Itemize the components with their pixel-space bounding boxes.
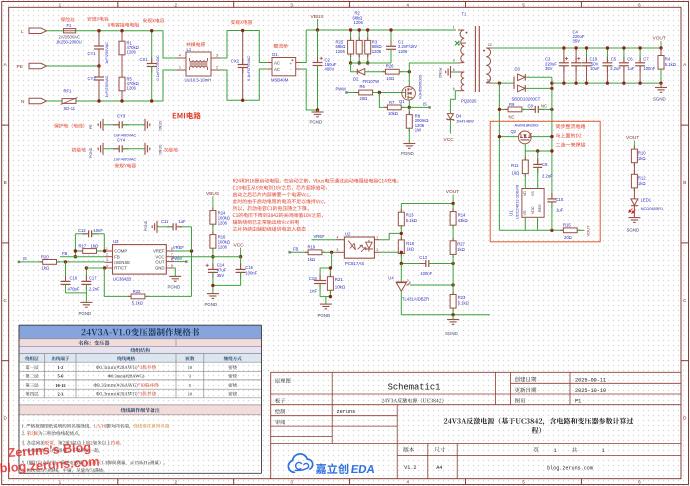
title block 版本 尺寸 页 <box>403 447 414 452</box>
svg-text:CY3: CY3 <box>117 113 126 118</box>
svg-text:PGND: PGND <box>310 120 323 125</box>
svg-text:D: D <box>683 416 687 421</box>
svg-text:R23: R23 <box>458 295 466 300</box>
svg-text:0.1uF/275VAC: 0.1uF/275VAC <box>246 56 251 81</box>
svg-text:2: 2 <box>376 248 378 252</box>
capacitor C9 <box>537 151 539 164</box>
title block row1 原理图 Schematic1 <box>275 378 290 383</box>
svg-text:1nF/250VAC: 1nF/250VAC <box>104 42 109 64</box>
svg-text:C: C <box>4 298 8 303</box>
wire R22 to VREF column <box>191 251 193 296</box>
svg-text:3: 3 <box>189 374 192 379</box>
svg-text:10uF: 10uF <box>590 66 600 71</box>
svg-text:C7: C7 <box>643 57 649 62</box>
wire L to F1 <box>47 30 64 32</box>
svg-text:1206: 1206 <box>372 49 382 54</box>
svg-text:VCC: VCC <box>444 137 455 143</box>
svg-text:5.1kΩ: 5.1kΩ <box>132 300 143 305</box>
svg-text:1: 1 <box>554 448 557 454</box>
svg-text:VREF: VREF <box>153 249 165 254</box>
svg-text:CY4: CY4 <box>117 137 126 142</box>
wire rail to L1 pin4 <box>163 31 177 58</box>
svg-text:PGND: PGND <box>168 285 181 290</box>
ground PGND (C2) <box>317 110 319 112</box>
net label VREF (U2) <box>312 239 336 241</box>
wire to CY4 <box>103 148 119 150</box>
resistor R24 <box>212 207 214 211</box>
svg-text:3: 3 <box>216 54 218 58</box>
resistor R17 <box>75 250 83 252</box>
svg-text:CY2: CY2 <box>88 76 97 81</box>
svg-text:VOUT: VOUT <box>586 225 591 237</box>
resistor R22 <box>104 268 131 296</box>
capacitor C7 <box>639 48 641 63</box>
svg-text:AC: AC <box>274 60 280 65</box>
ground PGND (C18 R21) <box>320 303 332 305</box>
svg-text:10kΩ: 10kΩ <box>335 284 346 289</box>
svg-text:4: 4 <box>179 54 181 58</box>
shunt regulator U4 TL431 <box>400 264 402 283</box>
svg-text:ISENSE: ISENSE <box>114 260 130 265</box>
wire U2 pin1 to divider <box>380 233 402 239</box>
svg-text:LED1: LED1 <box>641 198 652 203</box>
wire L1 pin3 to top rail <box>221 31 268 63</box>
capacitor C1 <box>390 30 392 46</box>
title block main title <box>444 418 633 426</box>
net label FB (U2) <box>288 251 290 253</box>
svg-text:PGND: PGND <box>318 313 331 318</box>
svg-text:1kΩ: 1kΩ <box>638 181 646 186</box>
wires U1 bottom pins to rail <box>524 217 526 230</box>
svg-text:10Ω: 10Ω <box>386 76 394 81</box>
svg-text:4: 4 <box>337 235 339 239</box>
svg-text:C5: C5 <box>611 57 617 62</box>
svg-text:2A/250VAC: 2A/250VAC <box>59 34 81 39</box>
varistor RF1 <box>62 99 76 104</box>
ground SGND (LED1) <box>628 217 640 219</box>
svg-text:RF1: RF1 <box>64 89 73 94</box>
spec table notes text <box>22 424 169 429</box>
svg-text:10-12: 10-12 <box>55 383 65 388</box>
spec table row 名称 变压器 <box>79 340 110 345</box>
svg-text:C17: C17 <box>89 276 97 281</box>
svg-text:6: 6 <box>638 2 641 7</box>
svg-text:D2: D2 <box>353 76 359 81</box>
svg-text:NJH65R600S: NJH65R600S <box>418 74 423 99</box>
svg-text:4: 4 <box>106 264 108 268</box>
svg-text:CX1: CX1 <box>140 57 149 62</box>
svg-text:U3: U3 <box>113 239 119 244</box>
svg-text:SBDD10200CT: SBDD10200CT <box>512 96 541 101</box>
wire RT/CT row <box>86 267 104 269</box>
wire L1 pin2 to bottom rail <box>221 69 268 100</box>
dual schottky D3 <box>513 77 515 90</box>
svg-text:CX2: CX2 <box>231 59 240 64</box>
net label IS (Q1 source) <box>409 106 429 108</box>
wire pin10 node down <box>498 83 500 230</box>
red note 次级地 <box>164 148 178 152</box>
spec table background rows <box>19 325 262 339</box>
svg-text:PE: PE <box>89 124 93 129</box>
svg-text:R18: R18 <box>406 241 414 246</box>
watermark Zeruns Blog <box>0 440 100 475</box>
svg-text:C6: C6 <box>627 57 633 62</box>
svg-text:10: 10 <box>188 365 193 370</box>
svg-text:FB: FB <box>62 251 68 256</box>
svg-text:5: 5 <box>171 264 173 268</box>
svg-text:C10: C10 <box>556 197 564 202</box>
svg-text:PGND: PGND <box>205 302 218 307</box>
title block grid <box>271 371 681 373</box>
svg-text:VOUT: VOUT <box>446 189 459 195</box>
spec table data row 3 <box>25 383 38 387</box>
svg-text:5.1kΩ: 5.1kΩ <box>665 62 676 67</box>
svg-text:AGM18N20D: AGM18N20D <box>515 122 539 127</box>
ground PGND (C16 C17) <box>80 301 92 303</box>
resistor R13 <box>400 204 402 213</box>
ground PGND (C14) <box>207 293 219 295</box>
wire C18 R21 join <box>320 296 330 298</box>
net label VCC (D4) <box>449 120 451 134</box>
svg-text:2.2uF: 2.2uF <box>542 173 553 178</box>
svg-text:NCD0805R1: NCD0805R1 <box>641 206 664 211</box>
svg-text:D3: D3 <box>515 67 521 72</box>
wire U2 pin2 to R18 bottom <box>380 251 402 253</box>
svg-text:SGND: SGND <box>627 228 640 233</box>
svg-text:4: 4 <box>406 480 409 485</box>
connector L <box>29 28 47 34</box>
svg-text:C16: C16 <box>70 276 78 281</box>
svg-text:IS: IS <box>23 256 27 261</box>
capacitor CY2 <box>98 66 100 77</box>
red note startup paragraph <box>233 178 398 183</box>
svg-text:A: A <box>4 62 8 67</box>
capacitor C2 <box>317 30 319 63</box>
capacitor C13 <box>401 263 424 265</box>
capacitor C6 <box>623 48 625 63</box>
divider top wire <box>401 203 453 205</box>
svg-text:1kΩ: 1kΩ <box>457 247 465 252</box>
svg-text:VREF: VREF <box>173 245 185 250</box>
svg-text:1: 1 <box>106 247 108 251</box>
svg-text:B: B <box>683 180 686 185</box>
svg-text:FB: FB <box>293 247 299 252</box>
sync controller U1 <box>522 189 544 218</box>
svg-text:PGND: PGND <box>438 68 442 79</box>
svg-text:1: 1 <box>602 448 605 454</box>
svg-text:3: 3 <box>290 480 293 485</box>
svg-text:1N4148W: 1N4148W <box>456 119 474 124</box>
svg-text:R14: R14 <box>458 213 466 218</box>
svg-text:1nF/400VAC: 1nF/400VAC <box>114 157 137 162</box>
svg-text:10kΩ: 10kΩ <box>388 111 398 116</box>
svg-text:IS: IS <box>423 101 427 106</box>
svg-text:PWM: PWM <box>336 87 347 92</box>
svg-text:1: 1 <box>376 235 378 239</box>
resistor R18 <box>400 237 402 241</box>
svg-text:C: C <box>683 298 687 303</box>
capacitor C16 <box>65 262 67 282</box>
svg-text:1nF: 1nF <box>310 288 318 293</box>
svg-text:VS: VS <box>531 191 535 196</box>
svg-text:PC817AS: PC817AS <box>345 261 364 266</box>
svg-text:UU10.5-10mH: UU10.5-10mH <box>185 77 212 82</box>
resistor R4 <box>660 48 662 56</box>
svg-text:SGND: SGND <box>158 145 162 156</box>
svg-text:2025-10-10: 2025-10-10 <box>575 388 606 394</box>
wire clamp node to T1 pin3 <box>409 63 458 72</box>
svg-text:R9: R9 <box>509 102 515 107</box>
svg-text:FR107W: FR107W <box>363 79 380 84</box>
svg-text:TL431AIDBZR: TL431AIDBZR <box>402 297 429 302</box>
svg-text:L1: L1 <box>187 47 192 52</box>
svg-text:B: B <box>4 180 7 185</box>
svg-text:PQ2620: PQ2620 <box>461 98 477 103</box>
spec table header row <box>25 356 38 360</box>
capacitor C14 <box>212 263 214 269</box>
svg-text:1kΩ: 1kΩ <box>42 266 50 271</box>
svg-text:1206: 1206 <box>398 49 408 54</box>
svg-text:10: 10 <box>188 391 193 396</box>
optocoupler U2 PC817AS <box>344 237 374 258</box>
svg-text:MSB40M: MSB40M <box>271 78 289 83</box>
svg-text:PGND: PGND <box>401 151 414 156</box>
spec table grid lines <box>19 324 262 326</box>
svg-text:6: 6 <box>453 87 455 91</box>
svg-text:R17: R17 <box>79 243 87 248</box>
svg-text:C8: C8 <box>528 104 534 109</box>
capacitor C3 <box>563 48 565 63</box>
wire PE <box>47 65 100 67</box>
svg-text:R11: R11 <box>511 163 519 168</box>
divider bottom rail <box>400 291 402 315</box>
svg-text:Φ0.3mm(#28AWG): Φ0.3mm(#28AWG) <box>108 374 145 379</box>
svg-text:12: 12 <box>488 43 492 47</box>
resistor R27 <box>452 238 454 242</box>
connector PE <box>29 63 47 69</box>
svg-text:PWM: PWM <box>172 256 183 261</box>
svg-text:R26: R26 <box>386 63 394 68</box>
svg-text:VCC: VCC <box>234 242 245 248</box>
spec table row 绕组结构 <box>131 348 150 353</box>
svg-text:PE: PE <box>17 64 23 70</box>
svg-text:Q2: Q2 <box>511 129 517 134</box>
svg-text:CY1: CY1 <box>88 51 97 56</box>
svg-text:20Ω: 20Ω <box>360 96 368 101</box>
snubber bus wire <box>351 62 391 64</box>
net label PWM (Q1) <box>345 91 347 93</box>
svg-text:+: + <box>290 61 293 66</box>
resistor R16 <box>212 231 214 235</box>
svg-text:1206: 1206 <box>218 244 228 249</box>
svg-text:D: D <box>4 416 8 421</box>
svg-text:5.1kΩ: 5.1kΩ <box>458 301 469 306</box>
capacitor CY4 <box>113 148 119 150</box>
wire D1- to ground <box>301 69 318 110</box>
ground SGND (CY3 right) <box>144 119 146 131</box>
red note X电容接电电阻 <box>108 23 139 27</box>
svg-text:A: A <box>683 62 687 67</box>
ground SGND (R4) <box>655 87 667 89</box>
svg-text:6: 6 <box>638 480 641 485</box>
svg-text:REG: REG <box>538 204 542 212</box>
svg-text:3: 3 <box>453 58 455 62</box>
resistor R25 <box>350 30 352 63</box>
capacitor C17 <box>85 268 87 281</box>
wire D1+ to VBUS rail <box>301 30 307 63</box>
capacitor C11 <box>191 227 193 251</box>
svg-text:A4: A4 <box>436 465 442 471</box>
svg-text:C12: C12 <box>78 228 86 233</box>
resistor R9 <box>499 108 508 110</box>
svg-text:1-2: 1-2 <box>57 365 63 370</box>
svg-text:NC: NC <box>509 115 515 120</box>
capacitor C4 <box>575 48 577 63</box>
wire Q2 source row <box>525 144 552 151</box>
svg-text:1206: 1206 <box>127 86 137 91</box>
ground PGND (C11) <box>156 221 158 233</box>
svg-text:C9: C9 <box>542 162 548 167</box>
svg-text:R15: R15 <box>563 222 571 227</box>
svg-text:R7: R7 <box>389 100 395 105</box>
svg-text:Q1: Q1 <box>399 99 405 104</box>
red note 安规X电容 <box>143 18 164 22</box>
svg-text:UCC24612-1DBVR: UCC24612-1DBVR <box>515 185 520 220</box>
capacitor C5 <box>606 48 608 63</box>
svg-text:5.1kΩ: 5.1kΩ <box>406 218 417 223</box>
svg-text:470pF: 470pF <box>68 287 80 292</box>
ground SGND (divider) <box>452 315 454 320</box>
svg-text:PGND: PGND <box>144 220 148 231</box>
svg-text:R4: R4 <box>665 57 671 62</box>
svg-text:PGND: PGND <box>89 147 93 158</box>
resistor R1 <box>121 31 123 101</box>
svg-text:R12: R12 <box>638 176 646 181</box>
T1 secondary winding pin12 pin10 <box>486 47 492 49</box>
svg-text:R20: R20 <box>41 254 49 259</box>
svg-text:EDA: EDA <box>350 464 376 476</box>
ground SGND (CY4 right) <box>144 143 146 155</box>
svg-text:NC: NC <box>541 104 547 109</box>
svg-text:VOUT: VOUT <box>626 135 639 141</box>
svg-text:R22: R22 <box>133 289 141 294</box>
svg-text:3: 3 <box>106 258 108 262</box>
capacitor CX1 <box>151 31 153 64</box>
title block 绘制 zeruns <box>275 409 285 414</box>
ground PGND (T1 pin5) <box>451 71 459 73</box>
resistor R12 <box>633 171 635 175</box>
svg-text:35V: 35V <box>217 273 225 278</box>
svg-text:U1: U1 <box>509 210 514 216</box>
svg-text:400V: 400V <box>325 67 335 72</box>
svg-text:1uF: 1uF <box>627 66 635 71</box>
spec table title 24V3A-V1.0变压器制作规格书 <box>82 328 200 336</box>
svg-text:COMP: COMP <box>114 249 127 254</box>
svg-text:OUT: OUT <box>155 259 164 264</box>
svg-text:U2: U2 <box>345 231 351 236</box>
T1 aux winding pin5 pin6 <box>458 71 464 73</box>
svg-text:1uF: 1uF <box>556 208 564 213</box>
svg-text:1: 1 <box>59 2 62 7</box>
red note 安规Y电容 2 <box>115 163 136 167</box>
svg-text:10: 10 <box>487 78 491 82</box>
ground PGND (R8) <box>403 143 415 145</box>
svg-text:1kΩ: 1kΩ <box>91 243 99 248</box>
svg-text:5: 5 <box>189 383 192 388</box>
ground PE (CY3 left) <box>102 119 104 131</box>
capacitor C10 <box>551 193 553 199</box>
svg-text:5: 5 <box>522 480 525 485</box>
svg-text:C11: C11 <box>161 219 169 224</box>
spec table notes header 绕线制作细节备注 <box>121 408 160 413</box>
svg-text:2: 2 <box>216 66 218 70</box>
svg-text:JK250-2000U: JK250-2000U <box>56 40 82 45</box>
svg-text:1206: 1206 <box>354 20 364 25</box>
capacitor C12 <box>75 233 87 235</box>
svg-text:V1.2: V1.2 <box>404 465 416 471</box>
VCC row wire <box>174 256 240 258</box>
svg-text:zeruns: zeruns <box>337 409 356 415</box>
spec table data row 2 <box>25 374 38 378</box>
resistor R26 <box>382 71 386 73</box>
resistor R21 <box>329 268 331 277</box>
svg-text:2-3: 2-3 <box>57 391 64 396</box>
net label VREF (U3) <box>174 250 191 252</box>
svg-text:SGND: SGND <box>158 121 162 132</box>
resistor R2 <box>358 30 360 63</box>
svg-text:RT/CT: RT/CT <box>114 266 127 271</box>
net label PWM (U3 OUT) <box>174 261 186 263</box>
svg-text:1nF/250VAC: 1nF/250VAC <box>104 75 109 97</box>
svg-text:R19: R19 <box>308 245 316 250</box>
JLC EDA logo <box>288 454 312 472</box>
svg-text:U4: U4 <box>388 276 394 281</box>
red note 安规X电容 2 <box>231 20 252 24</box>
svg-text:T1: T1 <box>462 12 468 17</box>
svg-text:1: 1 <box>453 26 455 30</box>
svg-text:1206: 1206 <box>336 49 346 54</box>
title block 审阅 <box>275 420 285 425</box>
svg-text:100nF: 100nF <box>420 271 432 276</box>
resistor R23 <box>452 291 454 295</box>
svg-text:0.1uF/275VAC: 0.1uF/275VAC <box>155 55 160 80</box>
svg-text:100nF: 100nF <box>245 270 257 275</box>
sync rectifier red box <box>490 121 600 242</box>
svg-text:FB: FB <box>114 254 120 259</box>
svg-text:1kΩ: 1kΩ <box>406 247 414 252</box>
svg-text:SGND: SGND <box>653 97 666 102</box>
svg-text:L: L <box>21 29 24 35</box>
wire C16 C17 join <box>66 292 87 294</box>
svg-text:2: 2 <box>175 2 178 7</box>
comp feedback vertical wire <box>74 234 76 257</box>
pwm controller U3 UC3842B <box>113 245 167 275</box>
ground PGND (CY4 left) <box>102 143 104 155</box>
wire bus to D2 <box>351 63 357 72</box>
wire N to RF1 <box>47 100 63 102</box>
svg-text:C15: C15 <box>245 265 253 270</box>
svg-text:SGND: SGND <box>445 331 458 336</box>
svg-text:10nF: 10nF <box>93 228 103 233</box>
resistor R6 <box>355 92 359 94</box>
svg-text:SD-11: SD-11 <box>64 106 76 111</box>
wire U4 ref to divider <box>410 284 453 286</box>
svg-text:4: 4 <box>406 2 409 7</box>
red note 整流桥 <box>274 44 288 48</box>
connector N <box>29 98 47 104</box>
red note 与上面的D2 <box>556 133 582 138</box>
svg-text:VG: VG <box>523 210 527 215</box>
